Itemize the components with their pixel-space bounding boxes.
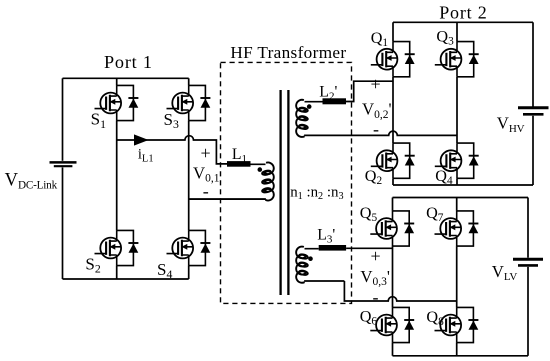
wire: DC-link branch lower xyxy=(62,168,64,280)
transistor Q2 with body diode xyxy=(371,143,415,178)
inductor L3' (series bar) xyxy=(319,245,346,251)
svg-text:Q6: Q6 xyxy=(360,308,378,328)
wire: Port 1 top rail xyxy=(63,77,189,79)
transistor S2 with body diode xyxy=(95,230,139,265)
wire: L2' to Port 2 left leg with up-jog xyxy=(346,81,393,101)
transistor Q6 with body diode xyxy=(370,307,414,342)
wire: Q3 drain stub xyxy=(456,22,458,41)
svg-text:Port 1: Port 1 xyxy=(104,52,153,72)
wire: Port 2 right leg Q3-Q4 xyxy=(456,77,458,143)
transformer tertiary winding N3 xyxy=(296,247,344,283)
wire: Q4 source stub xyxy=(456,178,458,185)
current arrow iL1 xyxy=(134,134,149,145)
wire: LV branch upper xyxy=(527,198,529,258)
transistor Q4 with body diode xyxy=(435,143,479,178)
wire: left leg phase node down to S2 xyxy=(116,140,118,230)
transistor Q7 with body diode xyxy=(435,211,479,246)
wire: Port 3 bottom rail xyxy=(393,355,529,357)
wire: S2 source stub to bottom rail xyxy=(116,266,118,279)
wire: Port 1 bottom rail xyxy=(63,278,189,280)
inductor L1 (series bar) xyxy=(227,161,251,167)
wire: winding N1 bottom return to right leg xyxy=(189,198,266,200)
svg-text:HF Transformer: HF Transformer xyxy=(230,43,346,62)
polarity dot of transformer secondary winding N2 xyxy=(307,104,312,109)
wire: Port 3 left leg Q5-Q6 xyxy=(392,246,394,307)
wire: S3 drain stub from top rail xyxy=(188,78,190,85)
svg-text:VLV: VLV xyxy=(492,262,518,283)
svg-text:L2': L2' xyxy=(319,84,337,103)
wire: S1 drain stub from top rail xyxy=(116,78,118,85)
wire: LV branch lower xyxy=(527,267,529,356)
svg-text:n1 :n2 :n3: n1 :n2 :n3 xyxy=(290,184,343,202)
polarity dot of transformer tertiary winding N3 xyxy=(308,256,313,261)
svg-text:Port 2: Port 2 xyxy=(439,2,487,22)
svg-text:S3: S3 xyxy=(164,110,179,131)
wire: Q8 source stub xyxy=(456,343,458,356)
wire: Q2 source stub xyxy=(392,178,394,185)
wire: Port 2 left leg Q1-Q2 xyxy=(392,77,394,143)
svg-text:Q8: Q8 xyxy=(426,308,444,328)
transistor Q5 with body diode xyxy=(370,211,414,246)
wire: Q5 drain stub xyxy=(392,198,394,211)
transistor Q8 with body diode xyxy=(435,307,479,342)
polarity dot of transformer primary winding N1 xyxy=(258,167,263,172)
svg-text:V0,3': V0,3' xyxy=(360,267,390,288)
svg-text:+: + xyxy=(201,143,211,163)
svg-text:Q2: Q2 xyxy=(365,167,383,187)
svg-text:L3': L3' xyxy=(317,227,335,246)
transformer secondary winding N2 xyxy=(296,100,322,137)
svg-text:S2: S2 xyxy=(85,255,100,276)
wire: HV branch lower xyxy=(532,116,534,185)
wire: winding N3 bottom jog down and right to Port 3 right leg with hop xyxy=(344,281,456,301)
svg-text:-: - xyxy=(203,181,209,201)
wire: S4 source stub to bottom rail xyxy=(188,266,190,279)
wire: Port 2 top rail xyxy=(393,21,533,23)
wire: right leg S3 source down to S4 drain xyxy=(188,121,190,231)
wire: winding N2 bottom to Port 2 right leg with crossover hop xyxy=(312,131,457,135)
transistor S3 with body diode xyxy=(167,85,211,120)
wire: S1 source to phase node A xyxy=(116,121,118,140)
battery V_HV xyxy=(518,108,549,115)
svg-text:VDC-Link: VDC-Link xyxy=(5,171,58,192)
battery V_LV xyxy=(513,259,543,265)
battery V_DC-Link xyxy=(50,162,77,166)
svg-text:V0,2': V0,2' xyxy=(362,100,392,121)
wire: Port 2 bottom rail xyxy=(393,184,533,186)
transistor S4 with body diode xyxy=(167,230,211,265)
svg-text:+: + xyxy=(371,74,381,94)
svg-text:Q1: Q1 xyxy=(371,29,388,49)
transistor S1 with body diode xyxy=(95,85,139,120)
wire: Q1 drain stub xyxy=(392,22,394,41)
inductor L2' (series bar) xyxy=(323,98,347,104)
svg-text:-: - xyxy=(373,287,379,307)
svg-text:iL1: iL1 xyxy=(138,146,154,164)
wire: DC-link branch upper xyxy=(62,78,64,161)
wire: phase node A to L1 with crossover hop at right leg xyxy=(117,136,227,164)
wire: Port 3 right leg Q7-Q8 xyxy=(456,246,458,307)
svg-text:Q5: Q5 xyxy=(360,204,378,224)
transformer primary winding N1 xyxy=(189,162,274,200)
dashed boundary box of HF transformer xyxy=(221,62,352,303)
transformer core (double vertical lines) xyxy=(281,90,289,295)
wire: L3' to Port 3 left leg xyxy=(346,247,392,249)
svg-text:Q7: Q7 xyxy=(426,204,444,224)
wire: Q6 source stub xyxy=(392,343,394,356)
svg-text:S1: S1 xyxy=(91,110,106,131)
transistor Q3 with body diode xyxy=(435,42,479,77)
wire: Port 3 top rail xyxy=(393,197,529,199)
transistor Q1 with body diode xyxy=(371,42,415,77)
svg-text:-: - xyxy=(373,119,379,139)
wire: HV branch upper xyxy=(532,22,534,106)
svg-text:Q3: Q3 xyxy=(436,28,454,48)
svg-text:VHV: VHV xyxy=(497,114,525,135)
svg-text:S4: S4 xyxy=(157,260,172,281)
svg-text:+: + xyxy=(371,246,381,266)
svg-text:L1: L1 xyxy=(232,146,247,165)
wire: Q7 drain stub xyxy=(456,198,458,211)
